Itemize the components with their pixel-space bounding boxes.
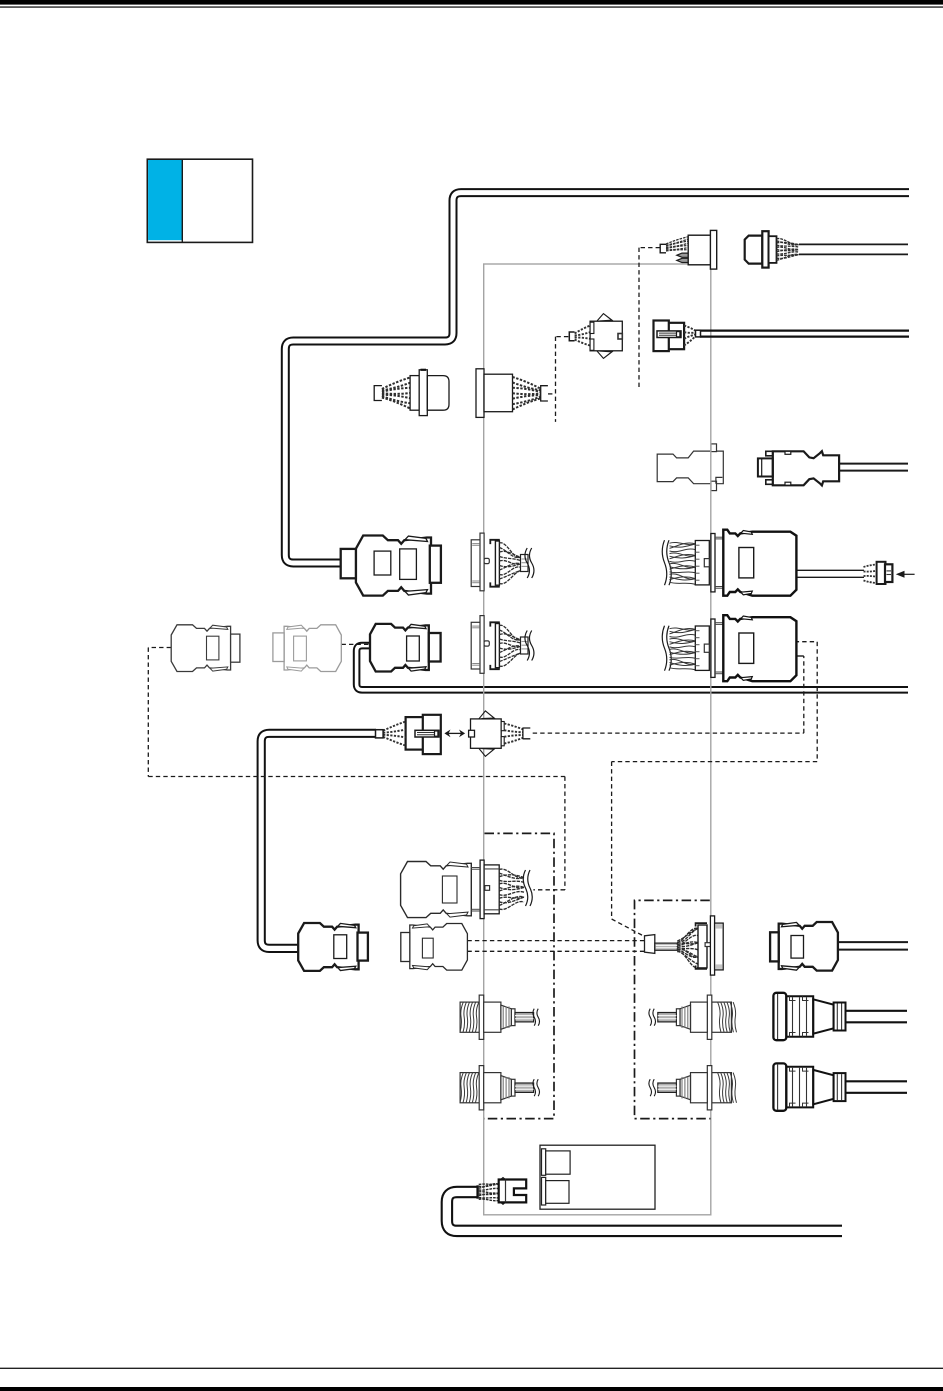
connector D1 adapter crossing harness box (657, 444, 723, 491)
harness box header N2 with wire bundle (471, 616, 534, 674)
wire from connector C6 to right edge (357, 646, 908, 690)
wire of trailer connector G2 (846, 1080, 908, 1082)
legend box with cyan tab (147, 159, 252, 242)
wire of connector F2 to right edge (838, 941, 908, 943)
ECU connector E1 (662, 530, 796, 596)
trailer-type connector G1 (773, 993, 845, 1040)
in-line connector C8 with flags (469, 711, 531, 756)
dashed link from connector C5 to harness connector H1 (148, 647, 171, 649)
harness connector H1 with wire bundle (401, 860, 533, 919)
connector C9 harness side with wire (298, 923, 368, 971)
dashed link from in-line connector C3 bracket (556, 336, 569, 338)
wire of connector B2 to right edge (799, 243, 908, 245)
harness connector H2 with wire bundle (645, 916, 724, 975)
connector F2 with wire to right (770, 922, 838, 971)
sensor connector S4 right (649, 1066, 737, 1110)
harness box header N1 with wire bundle (471, 533, 534, 591)
connector B1 receptacle on harness box top (660, 230, 717, 269)
connector C6 harness side with wire (370, 624, 441, 672)
wire of connector D2 to right edge (839, 463, 908, 465)
connector C5 harness side (171, 625, 240, 672)
harness boundary gray box (484, 264, 711, 1215)
wire from battery connector to bottom right (447, 1192, 842, 1231)
dashed pair from connector F1 to harness connector H2 (467, 940, 644, 942)
arrow pointing at service plug (896, 571, 915, 578)
connector B2 plug with wire (745, 231, 799, 267)
page header rule (0, 6, 943, 8)
connector C2 with fan to flange (left of harness box) (374, 370, 449, 416)
in-line connector C7 with terminal slot (376, 715, 441, 754)
connector D2 plug with wire (758, 451, 839, 485)
in-line connector C4 with wire to right (654, 321, 701, 352)
dash-dot group frame left (484, 833, 554, 1118)
small service plug with arrow at ECU connector E1 (864, 562, 893, 584)
sensor connector S3 right (649, 995, 737, 1039)
dash-dot group frame right (635, 900, 711, 1118)
sensor connector S2 left (460, 1066, 540, 1110)
double-headed arrow between connector pair (444, 730, 465, 738)
wire from in-line connector pair down to connector C9 (261, 733, 376, 948)
in-line connector C3 with flags (569, 314, 622, 359)
wire tab of connector C1 (341, 549, 356, 578)
page footer rule (0, 1367, 943, 1369)
connector F1 mating side (401, 924, 468, 971)
wire stub of ECU connector E1 to small plug (797, 569, 865, 571)
connector C2b flange with fan to bracket (476, 369, 548, 418)
sensor connector S1 left (460, 995, 540, 1039)
wire of trailer connector G1 (846, 1010, 908, 1012)
page footer black bar (0, 1387, 943, 1391)
connector C1 with two cavities (356, 536, 441, 596)
relay box with two cavities (540, 1145, 655, 1209)
wire of in-line connector C4 to right edge (700, 329, 909, 331)
page header black bar (0, 0, 943, 5)
wire from top-right to connector C1 (long bent harness wire) (285, 193, 909, 563)
trailer-type connector G2 (773, 1063, 845, 1110)
connector C5b mating side (gray) (273, 625, 341, 672)
dashed link from connector B1 leader (639, 247, 660, 249)
dashed link from in-line connector C8 to ECU connector E2 (533, 732, 804, 734)
dashed link between connectors C5b and C6 (342, 643, 371, 645)
battery connector with brush (478, 1178, 527, 1205)
dashed link from ECU connector E2 to harness connector H2 (795, 641, 818, 643)
ECU connector E2 (662, 615, 796, 681)
